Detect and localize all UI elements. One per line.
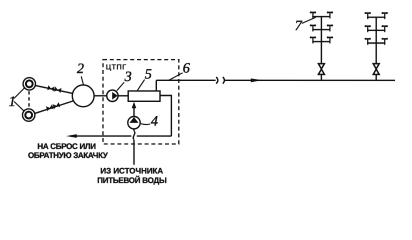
stem: [320, 17, 322, 64]
pump 3 (circle with filled right triangle): [107, 90, 118, 101]
injection wellhead tree 2: [365, 12, 388, 80]
label 6: [168, 60, 190, 80]
dashed link between wells: [28, 91, 30, 108]
valve (hourglass): [318, 64, 324, 69]
svg-text:НА СБРОС ИЛИ: НА СБРОС ИЛИ: [37, 142, 96, 151]
svg-text:5: 5: [145, 66, 152, 82]
label 5: [137, 66, 152, 90]
feed arrow into tank bottom: [133, 104, 135, 116]
bar level 2: [312, 29, 330, 31]
stem tree 2: [375, 17, 377, 63]
bar level 1: [367, 16, 385, 18]
drinking water line with hop over discharge line: [133, 129, 135, 131]
label 2: [77, 61, 84, 85]
fittings level 3: [367, 39, 369, 45]
injection wellhead tree 1: [310, 11, 333, 80]
bar level 1: [312, 16, 330, 18]
valves on bottom pipe (two bowties): [46, 102, 60, 111]
dashed box ЦТПГ: [103, 60, 179, 144]
well 1 bottom (double circle): [22, 109, 34, 121]
valve (hourglass) tree 2: [373, 64, 379, 69]
wire: top well to separator: [35, 86, 72, 94]
well 1 top (double circle): [23, 78, 35, 90]
discharge stub from tank right: [160, 95, 171, 136]
svg-text:2: 2: [77, 61, 84, 77]
separator 2 (vessel circle): [72, 85, 94, 107]
caption: ИЗ ИСТОЧНИКА / ПИТЬЕВОЙ ВОДЫ: [97, 167, 167, 185]
fittings level 1: [310, 11, 333, 18]
svg-text:3: 3: [124, 69, 132, 85]
wire: bottom well to separator: [35, 101, 73, 113]
bar level 3: [312, 41, 330, 43]
label 4: [141, 113, 158, 129]
line 6 (to injection wells): [156, 79, 215, 81]
label 3: [117, 69, 132, 91]
label 1: [9, 88, 25, 111]
label 7: [295, 17, 316, 34]
discharge arrowhead: [66, 134, 77, 138]
fittings level 2: [367, 26, 369, 32]
svg-text:ИЗ ИСТОЧНИКА: ИЗ ИСТОЧНИКА: [100, 167, 163, 176]
bar level 3: [367, 42, 385, 44]
valves on top pipe (two bowties): [47, 85, 61, 93]
svg-text:ОБРАТНУЮ ЗАКАЧКУ: ОБРАТНУЮ ЗАКАЧКУ: [28, 151, 109, 160]
riser of line 6 from tank top: [155, 80, 157, 91]
fittings level 1: [367, 13, 369, 19]
svg-text:7: 7: [295, 18, 303, 34]
svg-text:ПИТЬЕВОЙ ВОДЫ: ПИТЬЕВОЙ ВОДЫ: [97, 175, 167, 185]
svg-text:6: 6: [183, 60, 191, 76]
svg-text:4: 4: [151, 113, 158, 129]
discharge line to the left with arrow: [137, 135, 172, 137]
pump 4 (circle with filled up triangle): [128, 116, 140, 128]
caption: НА СБРОС ИЛИ / ОБРАТНУЮ ЗАКАЧКУ: [28, 142, 109, 160]
line break marks: [216, 77, 218, 84]
flow arrowhead on line 6: [251, 78, 263, 82]
bar level 2: [367, 29, 385, 31]
wire: separator to tank (main left line): [94, 95, 128, 97]
tank 5 (horizontal rectangle): [128, 91, 160, 101]
